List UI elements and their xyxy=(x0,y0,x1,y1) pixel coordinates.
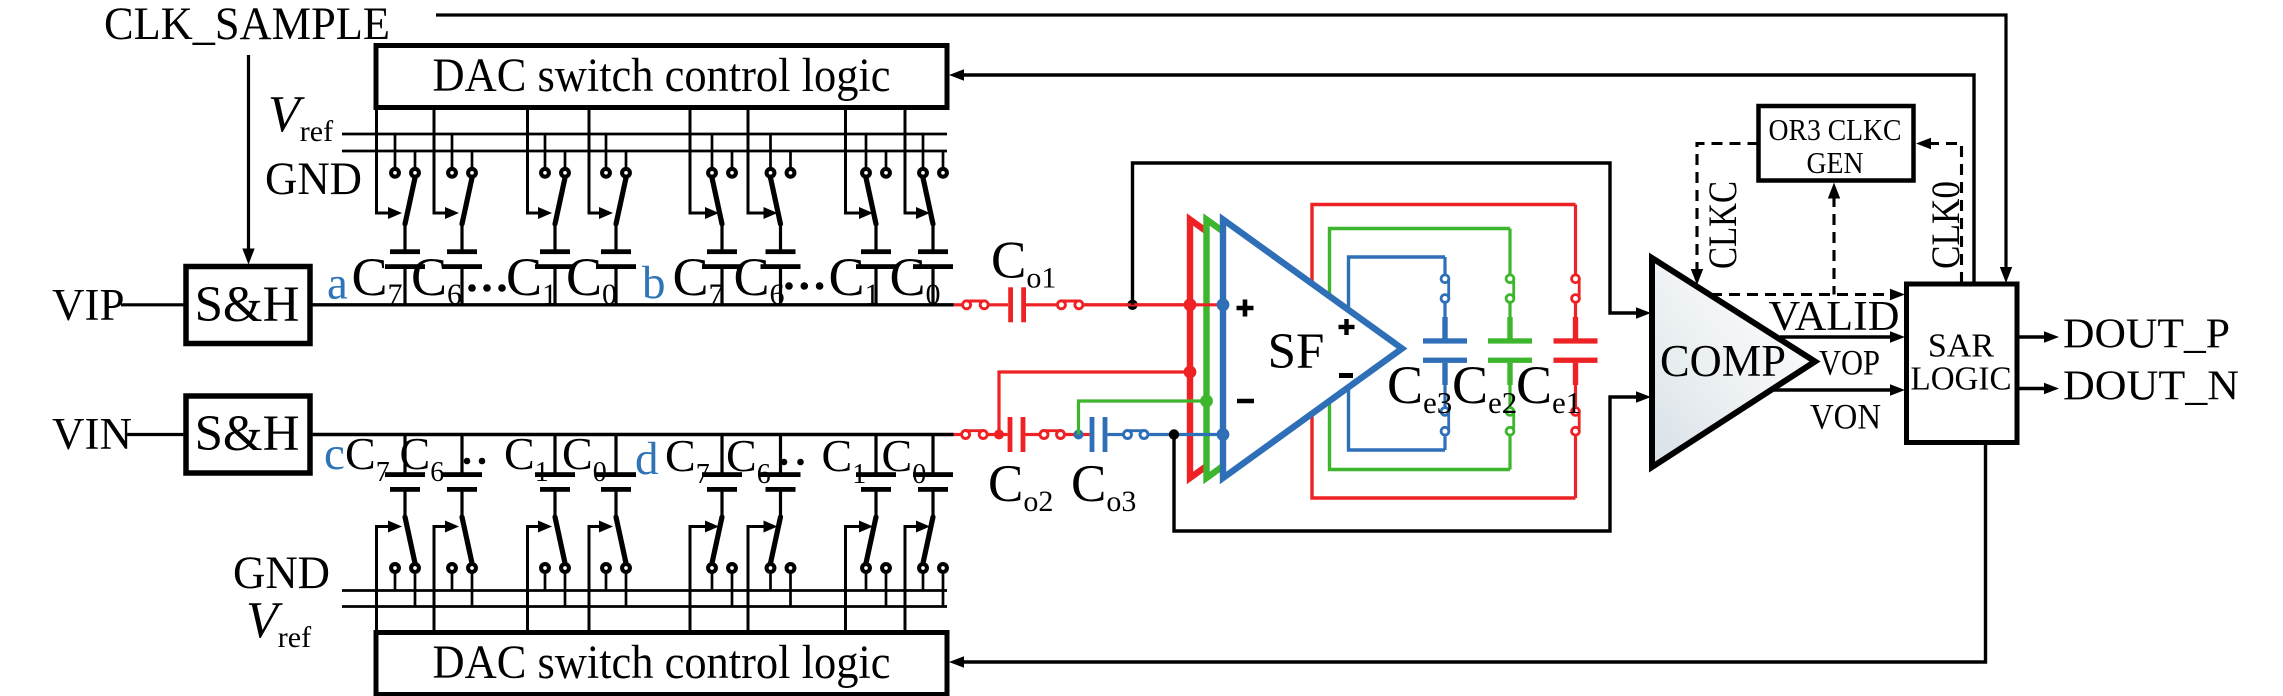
wire VALID from COMP to SAR xyxy=(1780,335,1892,338)
svg-text:SAR: SAR xyxy=(1928,328,1994,365)
svg-text:C0: C0 xyxy=(882,430,927,490)
dots (b group) xyxy=(785,282,823,290)
capacitor Ce3 with switches xyxy=(1423,257,1467,450)
arrow into SAR VALID xyxy=(1890,331,1905,343)
wire CLK_SAMPLE drop to S&H xyxy=(247,55,250,250)
wire DAC control to switch C0a (top) xyxy=(589,107,613,219)
svg-text:DAC switch control logic: DAC switch control logic xyxy=(433,49,891,102)
arrow DOUT_N xyxy=(2044,383,2059,395)
capacitor C0a xyxy=(596,249,636,304)
svg-text:C7: C7 xyxy=(345,428,390,488)
wire DAC control to switch C7a (top) xyxy=(377,107,403,219)
svg-text:CLK_SAMPLE: CLK_SAMPLE xyxy=(104,0,390,50)
dashed net CLK0 from SAR to OR3 xyxy=(1930,144,1962,284)
svg-text:b: b xyxy=(642,257,666,309)
wire red stub xyxy=(954,303,962,306)
svg-text:DAC switch control logic: DAC switch control logic xyxy=(433,636,891,689)
svg-text:C6: C6 xyxy=(411,247,462,311)
svg-text:VOP: VOP xyxy=(1819,343,1880,383)
op-amp SF (green stage) xyxy=(1207,220,1386,479)
S&H block (top) xyxy=(186,267,310,344)
wire arrow into S&H xyxy=(242,249,254,265)
wire blue Co3 to SF - input xyxy=(1149,433,1223,436)
dashed net VALID up to OR3 xyxy=(1832,196,1835,295)
capacitor C6b xyxy=(761,249,801,304)
wire DAC control to switch C1d (bottom) xyxy=(846,521,874,633)
junction red stage + input xyxy=(1184,298,1197,311)
svg-text:GEN: GEN xyxy=(1807,145,1864,180)
wire node c rail xyxy=(310,433,954,436)
svg-text:C6: C6 xyxy=(734,247,785,311)
svg-text:a: a xyxy=(327,258,348,310)
blue loop around Ce3 xyxy=(1349,257,1446,450)
wire DOUT_P xyxy=(2017,335,2045,338)
wire DAC control to switch C6a (top) xyxy=(434,107,459,219)
wire DAC control to switch C1a (top) xyxy=(528,107,553,219)
wire DOUT_N xyxy=(2017,387,2045,390)
switch SC0d (bottom array) xyxy=(919,491,947,607)
wire to Co1 xyxy=(989,303,1008,306)
junction blue stage + input xyxy=(1217,298,1230,311)
sampling switch (Co1 right) xyxy=(1057,301,1083,309)
wire DAC control to switch C6b (top) xyxy=(748,107,778,219)
svg-text:CLKC: CLKC xyxy=(1700,181,1745,269)
wire red Co2 tap to SF red minus xyxy=(999,372,1190,435)
wire SAR to top DAC logic xyxy=(963,75,1974,284)
wire DAC control to switch C6d (bottom) xyxy=(748,521,778,633)
capacitor C7d xyxy=(702,435,742,492)
svg-text:C1: C1 xyxy=(829,247,880,311)
junction node (red tap to SF upper minus) xyxy=(994,430,1004,440)
switch SC7b (top array) xyxy=(708,134,736,250)
svg-text:C7: C7 xyxy=(673,247,724,311)
arrow into SAR VON xyxy=(1890,384,1905,396)
arrow CLKC into COMP xyxy=(1691,269,1703,285)
capacitor C6c xyxy=(442,435,482,492)
capacitor Ce1 with switches xyxy=(1554,205,1598,499)
wire SF - node to COMP input (bottom loop) xyxy=(1174,397,1637,531)
wire CLK_SAMPLE top horizontal and right drop xyxy=(436,15,2006,269)
wire green tap to SF green minus xyxy=(1079,401,1207,435)
switch SC7a (top array) xyxy=(391,134,419,250)
svg-text:d: d xyxy=(635,433,659,485)
capacitor Co3 xyxy=(1090,417,1095,452)
wire Co3 to switch xyxy=(1107,433,1122,436)
svg-text:COMP: COMP xyxy=(1660,336,1786,386)
capacitor C7b xyxy=(702,249,742,304)
svg-text:C7: C7 xyxy=(352,247,403,311)
svg-text:C0: C0 xyxy=(566,247,617,311)
arrow into top DAC logic xyxy=(949,69,964,81)
SF output - sign xyxy=(1339,373,1353,378)
switch SC1b (top array) xyxy=(862,134,890,250)
capacitor C6d xyxy=(761,435,801,492)
GND bus (top) xyxy=(342,150,947,153)
svg-text:Vref: Vref xyxy=(246,592,311,654)
wire DAC control to switch C6c (bottom) xyxy=(434,521,459,633)
svg-text:Co3: Co3 xyxy=(1071,455,1136,518)
capacitor C1c xyxy=(535,435,575,492)
junction node (top feedback tap) xyxy=(1127,300,1137,310)
capacitor C6a xyxy=(442,249,482,304)
sampling switch (Co1 left) xyxy=(963,301,989,309)
svg-text:DOUT_P: DOUT_P xyxy=(2063,312,2230,358)
switch SC0c (bottom array) xyxy=(602,491,630,607)
wire DAC control to switch C7d (bottom) xyxy=(690,521,719,633)
svg-text:C1: C1 xyxy=(506,247,557,311)
junction red stage - input xyxy=(1184,366,1197,379)
S&H block (bottom) xyxy=(186,396,310,473)
switch SC6c (bottom array) xyxy=(448,491,476,607)
SF input + sign xyxy=(1237,306,1254,311)
wire node a rail xyxy=(310,303,954,306)
switch SC1d (bottom array) xyxy=(862,491,890,607)
junction node (bottom feedback tap) xyxy=(1169,429,1179,439)
svg-text:C0: C0 xyxy=(890,247,941,311)
svg-text:VIN: VIN xyxy=(52,409,132,459)
wire Co1 to switch xyxy=(1026,303,1056,306)
wire CLK_SAMPLE arrow into SAR LOGIC xyxy=(2000,267,2012,283)
svg-text:DOUT_N: DOUT_N xyxy=(2063,364,2239,410)
wire VIP to S&H xyxy=(121,303,186,306)
capacitor C1b xyxy=(856,249,896,304)
svg-text:C1: C1 xyxy=(822,430,867,490)
svg-text:Vref: Vref xyxy=(268,86,333,148)
wire DAC control to switch C1b (top) xyxy=(846,107,874,219)
svg-text:GND: GND xyxy=(265,153,362,205)
wire SAR to bottom DAC logic xyxy=(963,443,1986,663)
dots (a group) xyxy=(468,284,506,292)
capacitor C7c xyxy=(385,435,425,492)
wire red stub (bottom) xyxy=(954,433,961,436)
arrow into bottom DAC logic xyxy=(949,656,964,668)
Vref bus (bottom) xyxy=(342,605,947,608)
GND bus (bottom) xyxy=(342,589,947,592)
Vref bus (top) xyxy=(342,133,947,136)
junction green stage - input xyxy=(1200,395,1213,408)
svg-text:Ce1: Ce1 xyxy=(1516,355,1581,420)
SAR LOGIC box xyxy=(1907,284,2018,443)
capacitor C1d xyxy=(856,435,896,492)
svg-text:C6: C6 xyxy=(400,428,445,488)
arrow CLK0 into OR3 xyxy=(1916,138,1931,150)
svg-text:S&H: S&H xyxy=(195,277,300,333)
wire DAC control to switch C0d (bottom) xyxy=(905,521,930,633)
arrow into COMP - xyxy=(1636,391,1651,403)
wire DAC control to switch C0b (top) xyxy=(905,107,930,219)
capacitor Co2 xyxy=(1008,417,1013,452)
switch SC7d (bottom array) xyxy=(708,491,736,607)
dots (c group) xyxy=(464,458,486,465)
wire DAC control to switch C1c (bottom) xyxy=(528,521,553,633)
switch SC0a (top array) xyxy=(602,134,630,250)
svg-text:SF: SF xyxy=(1268,324,1325,380)
wire DAC control to switch C7b (top) xyxy=(690,107,719,219)
svg-text:CLK0: CLK0 xyxy=(1923,181,1968,269)
wire Co1 to SF + input xyxy=(1084,303,1223,306)
capacitor C0b xyxy=(913,249,953,304)
svg-text:Co1: Co1 xyxy=(991,231,1056,294)
junction blue stage - input xyxy=(1217,428,1230,441)
svg-text:VON: VON xyxy=(1810,397,1881,437)
svg-text:C7: C7 xyxy=(665,430,710,490)
svg-text:VIP: VIP xyxy=(52,280,125,330)
capacitor C1a xyxy=(535,249,575,304)
arrow into COMP + xyxy=(1636,307,1651,319)
wire VIN to S&H xyxy=(125,433,186,436)
switch SC1c (bottom array) xyxy=(541,491,569,607)
op-amp SF (red stage) xyxy=(1190,220,1369,479)
SF output + sign xyxy=(1339,325,1355,329)
green loop around Ce2 xyxy=(1330,229,1511,470)
switch SC7c (bottom array) xyxy=(391,491,419,607)
wire DAC control to switch C0c (bottom) xyxy=(589,521,613,633)
dots (d group) xyxy=(781,459,804,466)
SF input - sign xyxy=(1237,399,1254,404)
capacitor C0c xyxy=(596,435,636,492)
sampling switch (Co2 left) xyxy=(962,431,988,439)
svg-text:Co2: Co2 xyxy=(988,455,1053,518)
capacitor Co1 xyxy=(1008,287,1013,322)
switch SC0b (top array) xyxy=(919,134,947,250)
wire red into SF + over stages xyxy=(1084,303,1223,306)
svg-text:S&H: S&H xyxy=(195,406,300,462)
capacitor Ce2 with switches xyxy=(1488,229,1532,470)
junction node (green tap) xyxy=(1074,430,1084,440)
svg-text:C0: C0 xyxy=(562,428,607,488)
arrow VALID into SAR xyxy=(1890,289,1905,301)
wire Co2 switch to Co3 xyxy=(1066,433,1090,436)
red loop around Ce1 xyxy=(1312,205,1576,499)
svg-text:LOGIC: LOGIC xyxy=(1911,361,2012,398)
DAC switch control logic box (bottom) xyxy=(376,633,947,695)
wire SF + node to COMP input (top loop) xyxy=(1133,163,1638,313)
switch SC6a (top array) xyxy=(448,134,476,250)
op-amp SF (blue stage) xyxy=(1223,220,1402,479)
comparator COMP xyxy=(1652,258,1815,467)
dashed net VALID from COMP to SAR xyxy=(1711,293,1892,296)
sampling switch (Co2 right) xyxy=(1040,431,1065,439)
svg-text:VALID: VALID xyxy=(1769,294,1900,340)
capacitor C7a xyxy=(385,249,425,304)
wire Co2 to switch xyxy=(1025,433,1039,436)
switch SC6b (top array) xyxy=(767,134,795,250)
arrow DOUT_P xyxy=(2044,331,2059,343)
dashed net CLKC from OR3 to COMP xyxy=(1697,144,1759,272)
sampling switch (Co3 right) xyxy=(1124,431,1149,439)
switch SC6d (bottom array) xyxy=(767,491,795,607)
arrow into OR3 bottom xyxy=(1828,183,1840,199)
capacitor C0d xyxy=(913,435,953,492)
wire VOP VON from COMP to SAR xyxy=(1774,388,1892,391)
svg-text:OR3 CLKC: OR3 CLKC xyxy=(1769,112,1902,147)
svg-text:C1: C1 xyxy=(504,428,549,488)
wire DAC control to switch C7c (bottom) xyxy=(377,521,403,633)
wire to Co2 xyxy=(988,433,1007,436)
switch SC1a (top array) xyxy=(541,134,569,250)
OR3 CLKC GEN box xyxy=(1759,106,1914,181)
svg-text:C6: C6 xyxy=(726,430,771,490)
DAC switch control logic box (top) xyxy=(376,46,947,108)
